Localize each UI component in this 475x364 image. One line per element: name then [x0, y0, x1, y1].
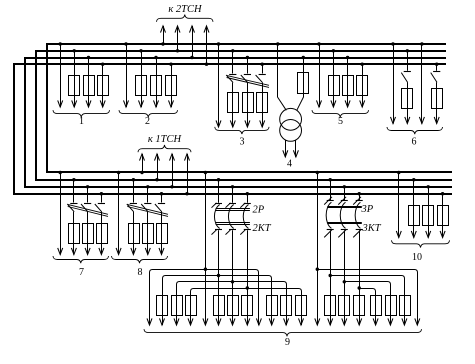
breaker pole upper plug contact — [327, 200, 334, 202]
arrow F1.3 — [86, 100, 91, 107]
group 9 left rail 4 — [191, 289, 302, 326]
fuse on drop — [371, 296, 382, 316]
busbar line N (section 2 top run, left riser, section 1 bottom run) — [14, 64, 452, 194]
arrow drop — [388, 318, 393, 325]
arrow — [293, 150, 298, 157]
junction at rail — [217, 274, 220, 277]
arrow right drop — [299, 318, 304, 325]
junction at bus — [343, 185, 346, 188]
wire stub 2P pole 3 from bus N — [247, 194, 249, 203]
svg-text:8: 8 — [138, 267, 143, 278]
wire to 1TCH phase C — [172, 154, 174, 187]
fuse F2.3 — [151, 76, 162, 96]
switch blade — [431, 73, 437, 83]
fuse Q3.2 — [228, 93, 239, 113]
label "3КТ" — [362, 223, 382, 234]
junction F2.3 — [154, 56, 157, 59]
transformer T4 secondary winding — [280, 119, 302, 141]
label "8" — [138, 267, 143, 278]
fuse F5.2 — [329, 76, 340, 96]
wire feeder F1.1 from bus A — [60, 44, 62, 107]
fuse Q7.4 — [97, 224, 108, 244]
wire to 1TCH phase A — [142, 154, 144, 173]
arrow up to 2TCH — [204, 26, 209, 33]
label "5" — [338, 116, 343, 127]
wire feeder F1.3 from bus C — [88, 58, 90, 108]
wire feeder F1.4 from bus N — [102, 64, 104, 107]
brace group 6 — [387, 127, 443, 134]
wire feeder Q3.1 from bus A — [218, 44, 220, 127]
contact slash — [324, 197, 332, 205]
fuse on right drop — [281, 296, 292, 316]
switch Q3.2 fixed contact — [229, 74, 236, 76]
svg-text:7: 7 — [79, 267, 84, 278]
junction — [140, 171, 143, 174]
fuse — [402, 89, 413, 109]
junction — [100, 192, 103, 195]
junction — [155, 178, 158, 181]
fuse on left drop — [157, 296, 168, 316]
breaker pole upper plug contact — [229, 203, 236, 205]
arrow drop — [373, 318, 378, 325]
junction — [132, 178, 135, 181]
svg-text:2Р: 2Р — [253, 205, 265, 216]
arrow F1.2 — [72, 100, 77, 107]
switch Q3.3 fixed contact — [244, 74, 251, 76]
label "10" — [412, 252, 422, 263]
arrow — [434, 117, 439, 124]
breaker carriage rails lower — [216, 223, 250, 225]
wire to fuse and arrow — [407, 82, 409, 123]
fuse F10.2 — [409, 206, 420, 226]
fuse Q7.2 — [69, 224, 80, 244]
junction F10.4 — [441, 192, 444, 195]
brace group 9 — [144, 329, 422, 336]
junction at rail — [204, 268, 207, 271]
switch Q8.2 blade — [127, 204, 134, 212]
group 9 left rail 3 — [177, 282, 287, 326]
breaker pole body — [355, 202, 360, 228]
junction — [205, 62, 208, 65]
arrow Q7.4 — [99, 248, 104, 255]
switch Q8.3 fixed contact — [144, 203, 151, 205]
brace group 3 — [215, 127, 269, 134]
wire stub 2P pole 1 from bus B — [218, 180, 220, 203]
arrow Q3.1 — [216, 120, 221, 127]
arrow up to 1TCH — [170, 154, 175, 161]
wire 2P pole 3 to rail, fuse, arrow — [247, 230, 249, 325]
brace group 1 — [53, 110, 110, 117]
junction — [391, 42, 394, 45]
group 9 left rail 1 — [150, 270, 259, 326]
arrow — [216, 318, 221, 325]
busbar line A (section 2 top run, left riser, section 1 bottom run) — [47, 44, 452, 172]
wire feeder Q8.1 from bus A — [118, 173, 120, 255]
junction — [59, 171, 62, 174]
svg-text:к 2ТСН: к 2ТСН — [168, 4, 203, 15]
wire feeder F10.3 from bus C — [428, 187, 430, 238]
arrow F10.2 — [411, 231, 416, 238]
wire 3P pole 1 to rail, fuse, arrow — [330, 230, 332, 325]
wire stub Q8.2 from bus B — [133, 180, 135, 203]
arrow left drop — [174, 318, 179, 325]
arrow right drop — [269, 318, 274, 325]
fuse on left drop — [172, 296, 183, 316]
wire to 2TCH phase B — [177, 26, 179, 51]
svg-text:10: 10 — [412, 252, 422, 263]
group 9 right rail 4 — [359, 289, 375, 326]
wire stub Q7.3 from bus C — [87, 187, 89, 203]
arrow F1.1 — [58, 100, 63, 107]
arrow up to 2TCH — [161, 26, 166, 33]
fuse F5.4 — [357, 76, 368, 96]
breaker carriage rails upper — [216, 209, 250, 211]
arrow F5.3 — [345, 100, 350, 107]
arrow — [391, 117, 396, 124]
group 9 right rail 2 — [330, 276, 404, 326]
junction — [86, 185, 89, 188]
breaker pole upper plug contact — [341, 200, 348, 202]
junction F2.4 — [169, 62, 172, 65]
wire stub 3P pole 1 from bus B — [330, 180, 332, 201]
arrow Q7.3 — [85, 248, 90, 255]
wire Q3.2 to fuse and arrow — [232, 83, 234, 127]
breaker pole lower plug contact — [229, 229, 236, 231]
fuse — [228, 296, 239, 316]
arrow F1.4 — [100, 100, 105, 107]
fuse on left drop — [186, 296, 197, 316]
arrow F2.4 — [169, 100, 174, 107]
label "7" — [79, 267, 84, 278]
arrow F5.4 — [360, 100, 365, 107]
arrow Q3.2 — [230, 120, 235, 127]
junction at bus — [231, 185, 234, 188]
switch Q3.4 fixed contact — [259, 74, 266, 76]
junction — [176, 49, 179, 52]
arrow left drop — [160, 318, 165, 325]
wire stub Q3.3 from bus C — [247, 58, 249, 74]
wire Q3.3 to fuse and arrow — [247, 83, 249, 127]
arrow F2.2 — [139, 100, 144, 107]
breaker pole lower plug contact — [215, 229, 222, 231]
arrow up to 1TCH — [140, 154, 145, 161]
arrow — [230, 318, 235, 325]
arrow Q8.3 — [145, 248, 150, 255]
junction — [246, 56, 249, 59]
junction F1.2 — [73, 49, 76, 52]
arrow F10.3 — [426, 231, 431, 238]
junction at bus — [329, 178, 332, 181]
wire feeder Q7.1 from bus A — [60, 173, 62, 255]
contact slash — [324, 230, 332, 238]
brace group 2 — [119, 110, 178, 117]
busbar line B (section 2 top run, left riser, section 1 bottom run) — [36, 51, 452, 180]
breaker pole lower plug contact — [341, 229, 348, 231]
wire feeder F1.2 from bus B — [74, 51, 76, 107]
wire Q7.2 to fuse and arrow — [73, 212, 75, 255]
wire feeder F10.4 from bus N — [442, 194, 444, 238]
switch fixed contact — [404, 71, 411, 73]
wire to 1TCH phase N — [187, 154, 189, 194]
wire to 2TCH phase C — [192, 26, 194, 58]
switch Q7.3 fixed contact — [84, 203, 91, 205]
wire transformer primary phase A — [278, 44, 287, 110]
breaker pole body — [214, 205, 219, 229]
arrow Q8.1 — [116, 248, 121, 255]
junction — [72, 178, 75, 181]
breaker pole body — [243, 205, 248, 229]
junction at rail — [231, 280, 234, 283]
wire to 2TCH phase A — [163, 26, 165, 44]
switch Q7.4 fixed contact — [98, 203, 105, 205]
arrow F5.1 — [317, 100, 322, 107]
brace group 8 — [112, 256, 168, 263]
fuse on right drop — [267, 296, 278, 316]
wire Q7.3 to fuse and arrow — [87, 212, 89, 255]
junction — [117, 171, 120, 174]
svg-text:2: 2 — [145, 116, 150, 127]
arrow right drop — [256, 318, 261, 325]
arrow drop — [415, 318, 420, 325]
contact slash — [212, 203, 217, 208]
arrow F10.4 — [440, 231, 445, 238]
wire transformer secondary right — [295, 140, 297, 157]
label "9" — [285, 337, 290, 348]
junction at bus — [358, 192, 361, 195]
fuse F5.3 — [343, 76, 354, 96]
switch Q7.4 blade — [95, 204, 102, 212]
junction F1.1 — [59, 42, 62, 45]
junction — [276, 42, 279, 45]
arrow drop — [402, 318, 407, 325]
junction — [160, 192, 163, 195]
fuse — [432, 89, 443, 109]
fuse F1.3 — [84, 76, 95, 96]
arrow up to 2TCH — [190, 26, 195, 33]
label "4" — [287, 159, 292, 170]
switch fixed contact — [433, 71, 440, 73]
wire feeder F10.2 from bus B — [413, 180, 415, 238]
arrow up to 2TCH — [175, 26, 180, 33]
wire feeder F10.1 from bus A — [398, 173, 400, 238]
junction F10.1 — [397, 171, 400, 174]
arrow — [342, 318, 347, 325]
wire stub from bus N — [436, 64, 438, 71]
contact slash — [240, 230, 245, 235]
breaker pole lower plug contact — [356, 229, 363, 231]
contact slash — [212, 230, 217, 235]
arrow — [357, 318, 362, 325]
brace group 7 — [53, 256, 109, 263]
wire transformer primary phase C — [297, 58, 304, 111]
fuse — [214, 296, 225, 316]
fuse on drop — [386, 296, 397, 316]
junction — [302, 56, 305, 59]
junction F2.2 — [139, 49, 142, 52]
wire feeder Q6.3 from bus A — [421, 44, 423, 124]
svg-text:3: 3 — [240, 137, 245, 148]
junction — [170, 185, 173, 188]
arrow F10.1 — [396, 231, 401, 238]
brace group 10 — [392, 240, 450, 247]
wire feeder Q6.1 from bus A — [393, 44, 395, 124]
breaker pole upper plug contact — [244, 203, 251, 205]
label "3" — [240, 137, 245, 148]
switch Q7.3 blade — [81, 204, 88, 212]
svg-text:6: 6 — [412, 137, 417, 148]
switch Q7 linkage bar — [68, 204, 108, 216]
fuse on drop — [400, 296, 411, 316]
label "к 1ТСН" — [148, 134, 183, 145]
fuse — [339, 296, 350, 316]
fuse F2.2 — [136, 76, 147, 96]
wire to 2TCH phase N — [206, 26, 208, 64]
wire 3P pole 3 to rail, fuse, arrow — [359, 230, 361, 325]
fuse F4 — [298, 73, 309, 94]
junction F10.2 — [412, 178, 415, 181]
wire to 1TCH phase B — [157, 154, 159, 180]
wire to fuse and arrow — [436, 82, 438, 123]
fuse — [242, 296, 253, 316]
arrow — [419, 117, 424, 124]
junction F2.1 — [124, 42, 127, 45]
switch blade — [401, 73, 407, 83]
contact slash — [226, 230, 231, 235]
switch Q7.2 blade — [67, 204, 74, 212]
wire feeder 3P neutral from bus A to rail — [317, 173, 319, 326]
arrow Q8.2 — [131, 248, 136, 255]
contact slash — [338, 197, 346, 205]
junction at bus — [204, 171, 207, 174]
breaker pole body — [340, 202, 345, 228]
svg-text:9: 9 — [285, 337, 290, 348]
wire feeder F5.3 from bus C — [347, 58, 349, 108]
wire stub 3P pole 2 from bus C — [344, 187, 346, 201]
junction — [406, 49, 409, 52]
junction — [146, 185, 149, 188]
label "3Р" — [361, 204, 374, 215]
fuse — [325, 296, 336, 316]
breaker pole body — [326, 202, 331, 228]
junction — [185, 192, 188, 195]
junction — [190, 56, 193, 59]
svg-text:3КТ: 3КТ — [362, 223, 382, 234]
breaker pole lower plug contact — [244, 229, 251, 231]
wire feeder F2.4 from bus N — [171, 64, 173, 107]
svg-text:1: 1 — [79, 116, 84, 127]
transformer T4 primary winding — [280, 108, 302, 130]
switch Q3 linkage bar — [227, 75, 269, 87]
junction at rail — [343, 280, 346, 283]
contact slash — [353, 230, 361, 238]
arrow Q7.1 — [58, 248, 63, 255]
junction at rail — [358, 286, 361, 289]
svg-text:2КТ: 2КТ — [253, 223, 272, 234]
arrow up to 1TCH — [155, 154, 160, 161]
junction — [217, 42, 220, 45]
fuse F10.3 — [423, 206, 434, 226]
wire 2P pole 2 to rail, fuse, arrow — [232, 230, 234, 325]
junction — [231, 49, 234, 52]
arrow — [405, 117, 410, 124]
junction F5.2 — [332, 49, 335, 52]
wire feeder F5.4 from bus N — [362, 64, 364, 107]
arrow — [328, 318, 333, 325]
label "6" — [412, 137, 417, 148]
wire transformer secondary left — [285, 140, 287, 157]
junction F5.3 — [346, 56, 349, 59]
wire stub Q3.4 from bus N — [262, 64, 264, 73]
wire 3P pole 2 to rail, fuse, arrow — [344, 230, 346, 325]
switch Q3.3 blade — [241, 75, 248, 83]
junction F5.4 — [361, 62, 364, 65]
junction at rail — [329, 274, 332, 277]
junction at bus — [217, 178, 220, 181]
arrow left drop — [147, 318, 152, 325]
wire Q8.3 to fuse and arrow — [147, 212, 149, 255]
switch Q8.2 fixed contact — [130, 203, 137, 205]
wire feeder F2.2 from bus B — [141, 51, 143, 107]
svg-text:5: 5 — [338, 116, 343, 127]
breaker pole lower plug contact — [327, 229, 334, 231]
junction at bus — [246, 192, 249, 195]
arrow Q3.3 — [245, 120, 250, 127]
switch Q8.3 blade — [141, 204, 148, 212]
arrow Q7.2 — [71, 248, 76, 255]
arrow right drop — [284, 318, 289, 325]
label "1" — [79, 116, 84, 127]
junction — [161, 42, 164, 45]
group 9 right rail 1 — [317, 270, 417, 326]
wire Q3.4 to fuse and arrow — [262, 83, 264, 127]
wire Q8.4 to fuse and arrow — [161, 212, 163, 255]
switch Q3.2 blade — [226, 75, 233, 83]
label "2" — [145, 116, 150, 127]
fuse Q7.3 — [83, 224, 94, 244]
breaker pole body — [228, 205, 233, 229]
contact slash — [226, 203, 231, 208]
breaker carriage rails upper — [327, 207, 362, 208]
arrow F5.2 — [331, 100, 336, 107]
contact slash — [353, 197, 361, 205]
label "к 2ТСН" — [168, 4, 203, 15]
arrow — [203, 318, 208, 325]
fuse on right drop — [296, 296, 307, 316]
wire stub 3P pole 3 from bus N — [359, 194, 361, 201]
junction — [261, 62, 264, 65]
wire feeder F5.2 from bus B — [333, 51, 335, 107]
wire stub Q7.2 from bus B — [73, 180, 75, 203]
junction at rail — [316, 268, 319, 271]
arrow — [245, 318, 250, 325]
arrow F2.1 — [124, 100, 129, 107]
wire feeder F2.3 from bus C — [156, 58, 158, 108]
wire stub 2P pole 2 from bus C — [232, 187, 234, 203]
wire Q7.4 to fuse and arrow — [101, 212, 103, 255]
fuse F1.2 — [69, 76, 80, 96]
fuse F1.4 — [98, 76, 109, 96]
svg-text:4: 4 — [287, 159, 292, 170]
arrow F2.3 — [154, 100, 159, 107]
switch Q8 linkage bar — [127, 204, 168, 216]
wire Q8.2 to fuse and arrow — [133, 212, 135, 255]
wire stub Q3.2 from bus B — [232, 51, 234, 74]
wire feeder F2.1 from bus A — [126, 44, 128, 107]
brace k 1TCH — [138, 145, 191, 152]
wire 2P pole 1 to rail, fuse, arrow — [218, 230, 220, 325]
junction F5.1 — [317, 42, 320, 45]
arrow up to 1TCH — [185, 154, 190, 161]
